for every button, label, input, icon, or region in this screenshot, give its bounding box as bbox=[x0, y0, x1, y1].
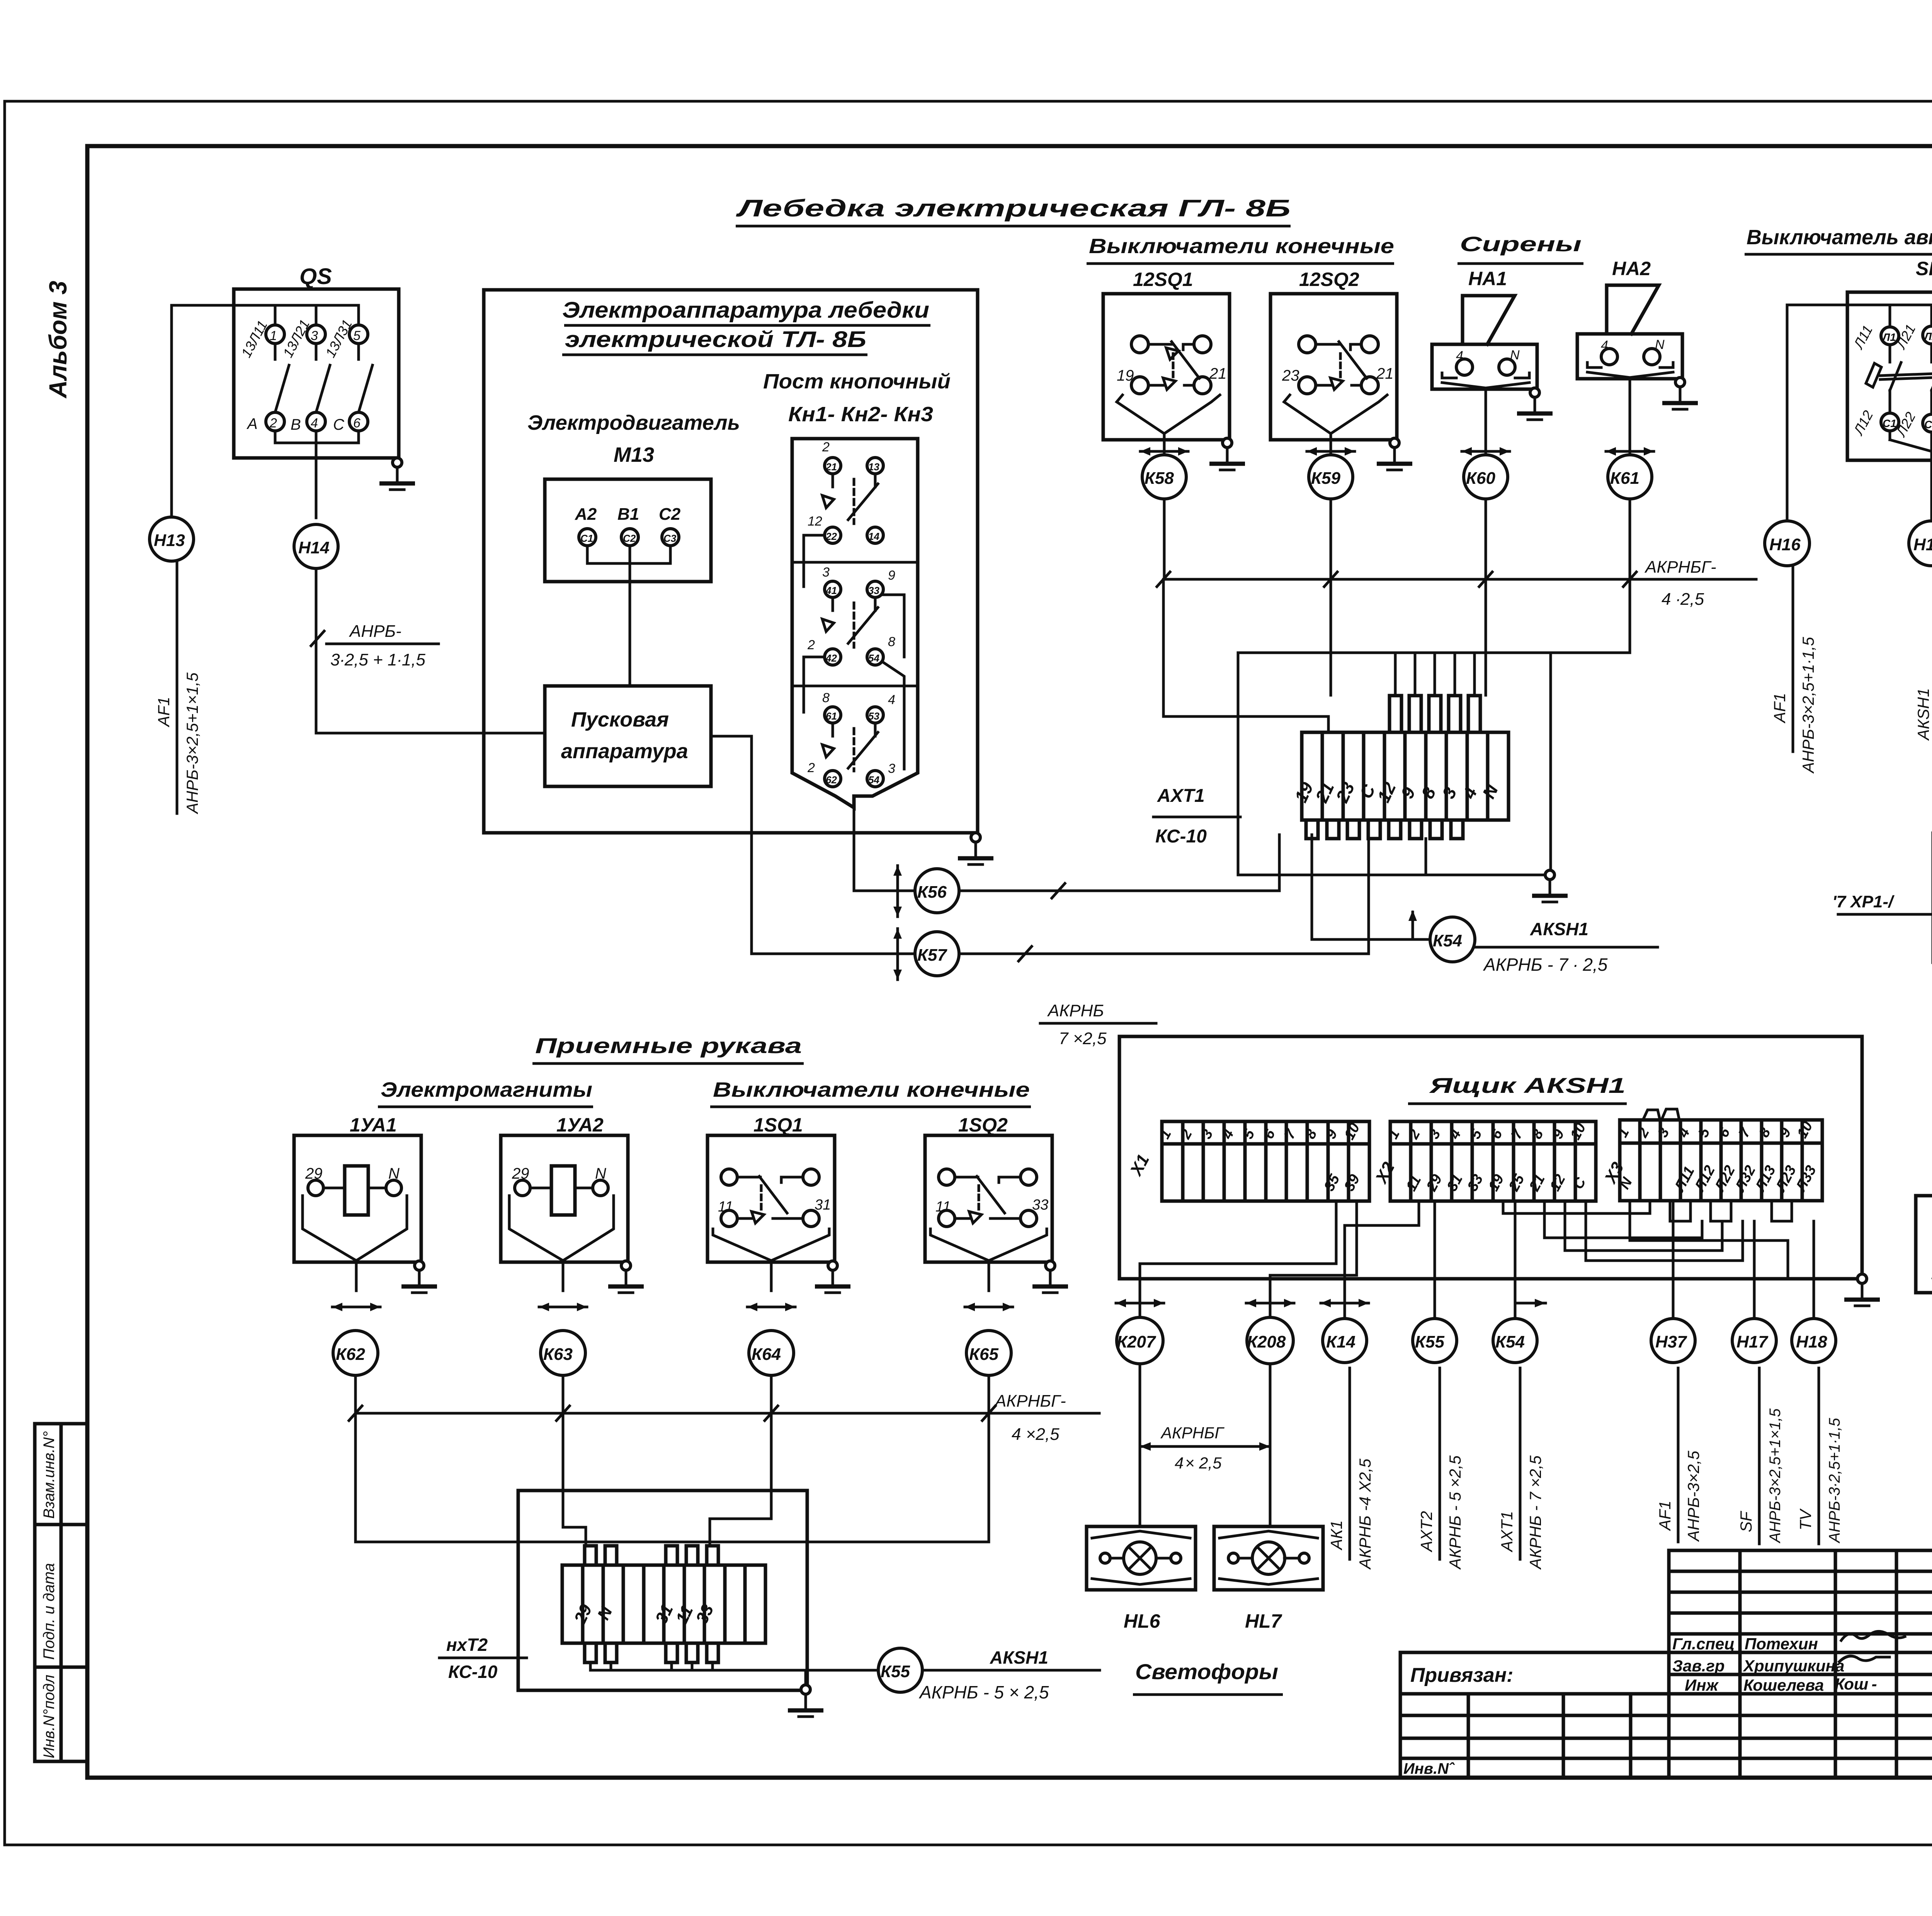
ground 1SQ1 bbox=[815, 1261, 850, 1293]
cable marker K64 bbox=[749, 1331, 794, 1375]
svg-text:3: 3 bbox=[311, 328, 318, 343]
wire H17 to X3:7 bbox=[1753, 1221, 1756, 1318]
svg-text:ТV: ТV bbox=[1796, 1508, 1815, 1530]
svg-text:С3: С3 bbox=[663, 533, 677, 544]
svg-text:К55: К55 bbox=[881, 1662, 910, 1681]
wire bottom collector QS bbox=[274, 431, 277, 443]
wire K59 down bbox=[1330, 499, 1332, 579]
left margin stamp boxes bbox=[35, 1424, 87, 1761]
cable marker H17 bbox=[1909, 521, 1932, 566]
ground QS bbox=[379, 458, 415, 490]
svg-text:АКSН1: АКSН1 bbox=[1914, 688, 1932, 741]
svg-text:SF: SF bbox=[1737, 1511, 1755, 1532]
svg-text:НL6: НL6 bbox=[1124, 1610, 1161, 1632]
breaker SF box bbox=[1847, 292, 1932, 460]
svg-text:К54: К54 bbox=[1433, 931, 1462, 950]
svg-text:АКРНБГ: АКРНБГ bbox=[1160, 1424, 1225, 1442]
arrow 1УА2 bbox=[539, 1303, 587, 1311]
svg-text:АКРНБ: АКРНБ bbox=[1047, 1001, 1104, 1020]
svg-text:К55: К55 bbox=[1415, 1332, 1445, 1351]
funnel 12SQ2 bbox=[1284, 395, 1331, 434]
wire K65 riser bbox=[988, 1413, 990, 1542]
svg-text:Выключатели конечные: Выключатели конечные bbox=[713, 1078, 1030, 1101]
arrow K208 bbox=[1246, 1299, 1294, 1307]
svg-text:Н18: Н18 bbox=[1796, 1332, 1827, 1351]
svg-text:33: 33 bbox=[868, 585, 879, 596]
wire K56 run bbox=[959, 835, 1279, 891]
wire K58 down bbox=[1163, 499, 1166, 579]
terminal C3 bbox=[662, 529, 679, 546]
svg-text:21: 21 bbox=[825, 461, 837, 473]
svg-text:Привязан:: Привязан: bbox=[1410, 1664, 1513, 1686]
arrow 1SQ1 bbox=[747, 1303, 795, 1311]
traffic light HL7 bbox=[1214, 1526, 1323, 1590]
wire H18 to X3:10 bbox=[1813, 1221, 1815, 1318]
svg-text:19: 19 bbox=[1117, 367, 1134, 384]
wire K57 run bbox=[959, 835, 1369, 954]
cable marker K57 bbox=[915, 932, 959, 976]
svg-text:11: 11 bbox=[718, 1199, 733, 1215]
node 3 bbox=[307, 325, 325, 344]
svg-text:АНРБ-3×2,5+1×1,5: АНРБ-3×2,5+1×1,5 bbox=[183, 672, 201, 815]
svg-text:3: 3 bbox=[888, 761, 895, 776]
svg-text:К54: К54 bbox=[1495, 1332, 1525, 1351]
wire K55 to X2:3 bbox=[1434, 1201, 1436, 1318]
cable marker K55 bbox=[1413, 1319, 1457, 1363]
svg-text:Светофоры: Светофоры bbox=[1135, 1659, 1278, 1684]
node 1 bbox=[266, 325, 284, 344]
wire K208 to X1:10 bbox=[1270, 1201, 1357, 1318]
svg-text:АНРБ-: АНРБ- bbox=[349, 622, 401, 641]
svg-text:Альбом 3: Альбом 3 bbox=[44, 281, 72, 399]
box AKSH1 bbox=[1119, 1036, 1862, 1279]
breaker poles bbox=[1889, 345, 1891, 362]
cable label К14 АК1 bbox=[1349, 1368, 1351, 1559]
svg-text:А2: А2 bbox=[575, 505, 597, 524]
svg-text:АНРБ-3×2,5+1×1,5: АНРБ-3×2,5+1×1,5 bbox=[1767, 1408, 1784, 1543]
svg-text:4: 4 bbox=[311, 416, 318, 431]
svg-text:21: 21 bbox=[1376, 365, 1394, 382]
wire K54 run bbox=[1311, 835, 1313, 939]
svg-text:62: 62 bbox=[826, 774, 837, 786]
wire AXT2 collector bbox=[589, 1662, 592, 1670]
svg-text:N: N bbox=[1510, 348, 1520, 362]
cable marker H13 bbox=[150, 517, 194, 561]
wire K59 riser to strip bbox=[1330, 579, 1332, 695]
terminal strip АХТ1 bbox=[1302, 732, 1509, 820]
node 5 bbox=[349, 325, 368, 344]
svg-text:Н17: Н17 bbox=[1736, 1332, 1769, 1351]
siren HA2 bbox=[1607, 285, 1659, 334]
svg-text:14: 14 bbox=[868, 531, 879, 542]
svg-text:1УА1: 1УА1 bbox=[350, 1114, 397, 1136]
wire H14 down bbox=[315, 568, 318, 733]
wire K207 to X1:9 bbox=[1140, 1201, 1336, 1318]
cable marker H16 bbox=[1765, 521, 1810, 566]
svg-text:31: 31 bbox=[815, 1197, 831, 1213]
terminal C1 bbox=[579, 529, 596, 546]
svg-text:4 × 2,5: 4 × 2,5 bbox=[1175, 1454, 1222, 1472]
svg-text:Лебедка электрическая ГЛ-: Лебедка электрическая ГЛ- 8Б bbox=[736, 195, 1291, 222]
svg-text:С2: С2 bbox=[659, 505, 681, 524]
svg-text:К14: К14 bbox=[1326, 1332, 1355, 1351]
svg-text:Зав.гр: Зав.гр bbox=[1672, 1657, 1725, 1675]
box АХТ2 bbox=[518, 1491, 807, 1690]
box ТЛ-8Б bbox=[484, 290, 978, 833]
svg-text:11: 11 bbox=[935, 1199, 951, 1215]
svg-text:К63: К63 bbox=[543, 1345, 573, 1364]
svg-text:Инж: Инж bbox=[1685, 1676, 1719, 1694]
wire K54 to X2:7 bbox=[1514, 1201, 1517, 1318]
title block left привязан part bbox=[1400, 1652, 1669, 1778]
svg-text:Приемные рукава: Приемные рукава bbox=[535, 1033, 802, 1058]
svg-text:Н17: Н17 bbox=[1913, 535, 1932, 554]
svg-text:29: 29 bbox=[305, 1165, 323, 1182]
strap X3 5-6 bbox=[1711, 1201, 1731, 1221]
svg-text:аппаратура: аппаратура bbox=[561, 740, 688, 763]
strip AXT1 top tabs bbox=[1389, 696, 1480, 732]
cable marker K65 bbox=[966, 1331, 1011, 1375]
svg-text:4: 4 bbox=[1456, 349, 1463, 363]
arrow 12SQ2 bbox=[1307, 447, 1355, 456]
terminal C1 bbox=[1881, 413, 1899, 431]
svg-text:N: N bbox=[595, 1165, 606, 1182]
svg-text:Выключатели конечные: Выключатели конечные bbox=[1089, 235, 1394, 258]
wire H37 to X3:3 bbox=[1672, 1201, 1675, 1318]
strip X2 bbox=[1390, 1121, 1596, 1201]
svg-text:АНРБ-3×2,5: АНРБ-3×2,5 bbox=[1684, 1450, 1702, 1542]
ground 1УА2 bbox=[608, 1261, 644, 1293]
svg-text:Н13: Н13 bbox=[154, 531, 185, 550]
svg-text:К64: К64 bbox=[752, 1345, 781, 1364]
strip X3 numbers bbox=[1614, 1119, 1820, 1195]
svg-text:22: 22 bbox=[825, 531, 837, 542]
wire SF feeder to H16 bbox=[1787, 305, 1847, 521]
limit switch 12SQ1 box bbox=[1103, 294, 1230, 440]
svg-text:В1: В1 bbox=[617, 505, 639, 524]
switch QS box bbox=[234, 289, 399, 458]
arrow K207 bbox=[1116, 1299, 1164, 1307]
svg-text:29: 29 bbox=[512, 1165, 529, 1182]
wire SF top bus bbox=[1847, 304, 1932, 306]
cable marker K54 bbox=[1430, 917, 1475, 962]
cable marker H37 bbox=[1651, 1319, 1695, 1363]
svg-text:Электродвигатель: Электродвигатель bbox=[527, 411, 740, 434]
button Кн3 terminals bbox=[825, 707, 841, 723]
wire drops to AXT1 tabs bbox=[1394, 653, 1397, 696]
svg-text:В: В bbox=[291, 416, 301, 433]
svg-text:Н37: Н37 bbox=[1655, 1332, 1687, 1351]
arrow 1SQ2 bbox=[965, 1303, 1013, 1311]
svg-text:АНРБ-3∙2,5+1∙1,5: АНРБ-3∙2,5+1∙1,5 bbox=[1826, 1417, 1843, 1543]
strip AXT1 labels bbox=[1291, 779, 1502, 806]
cable marker K60 bbox=[1464, 455, 1508, 499]
electromagnet 1УА2 box bbox=[501, 1135, 628, 1262]
wire M13 to starter bbox=[629, 563, 631, 686]
cable marker H14 bbox=[294, 524, 338, 568]
electromagnet 1УА1 box bbox=[294, 1135, 421, 1262]
svg-text:Пусковая: Пусковая bbox=[571, 708, 669, 731]
wire pole stubs bbox=[274, 305, 277, 325]
jumper caps X3 bbox=[1643, 1110, 1660, 1120]
cable label AF1 / АНРБ-3x2,5+1x1,5 bbox=[176, 562, 179, 813]
svg-text:К207: К207 bbox=[1117, 1332, 1156, 1351]
arrow K14 bbox=[1321, 1299, 1369, 1307]
ground 12SQ1 bbox=[1209, 438, 1245, 470]
svg-text:Пост кнопочный: Пост кнопочный bbox=[763, 370, 951, 393]
wire bus АКРНБГ 4x2,5 bottom bbox=[354, 1375, 357, 1413]
svg-text:QS: QS bbox=[299, 264, 332, 289]
svg-text:АКРНБ - 5 ×2,5: АКРНБ - 5 ×2,5 bbox=[1446, 1455, 1464, 1570]
title block signature table bbox=[1669, 1550, 1932, 1778]
svg-text:Выключатель автоматический: Выключатель автоматический bbox=[1747, 226, 1932, 249]
arrow HA2 bbox=[1606, 447, 1654, 456]
ground 1УА1 bbox=[401, 1261, 437, 1293]
wire stub to loop bbox=[1425, 839, 1427, 875]
cable label Н18 ТV bbox=[1818, 1368, 1820, 1544]
wire post to K56 bbox=[854, 808, 915, 891]
ground loop bbox=[1532, 870, 1568, 902]
arrow K54 right bbox=[1515, 1299, 1546, 1307]
svg-text:61: 61 bbox=[826, 710, 837, 722]
svg-text:3∙2,5 + 1∙1,5: 3∙2,5 + 1∙1,5 bbox=[330, 650, 425, 669]
strap X3 8-9 bbox=[1772, 1201, 1792, 1221]
traffic light HL6 bbox=[1087, 1526, 1196, 1590]
svg-text:Кошелева: Кошелева bbox=[1743, 1676, 1824, 1694]
svg-text:53: 53 bbox=[868, 710, 879, 722]
cable dim АКРНБГ 4x2,5 bbox=[1140, 1442, 1270, 1451]
wire K63 step bbox=[563, 1413, 586, 1546]
cable marker K55 left bbox=[878, 1648, 922, 1692]
wire K14 to X2:2 bbox=[1345, 1201, 1419, 1318]
svg-text:К60: К60 bbox=[1466, 469, 1496, 488]
wire K62 riser bbox=[354, 1413, 357, 1542]
svg-text:4 ×2,5: 4 ×2,5 bbox=[1012, 1425, 1060, 1444]
svg-text:Хрипушкина: Хрипушкина bbox=[1743, 1657, 1844, 1675]
svg-text:Инв.N°подл: Инв.N°подл bbox=[41, 1675, 58, 1758]
ground 12SQ2 bbox=[1377, 438, 1412, 470]
strip X3 bbox=[1620, 1120, 1822, 1201]
node 4 bbox=[307, 412, 325, 431]
push button post box bbox=[792, 439, 918, 808]
arrow 1УА1 bbox=[332, 1303, 380, 1311]
svg-text:С: С bbox=[333, 416, 345, 433]
svg-text:54: 54 bbox=[868, 652, 879, 664]
svg-text:НА2: НА2 bbox=[1612, 258, 1651, 279]
button Кн2 terminals bbox=[825, 581, 841, 597]
svg-text:42: 42 bbox=[825, 652, 837, 664]
cable marker K14 bbox=[1323, 1319, 1367, 1363]
cable marker K62 bbox=[333, 1331, 378, 1375]
ground AKSH1 bbox=[1844, 1274, 1880, 1306]
cable marker K59 bbox=[1309, 455, 1353, 499]
arrow updown K57 bbox=[893, 929, 902, 980]
cable label Н37 АF1 bbox=[1677, 1368, 1680, 1542]
strip АХТ2 bbox=[562, 1565, 765, 1643]
strip X2 numbers bbox=[1385, 1120, 1589, 1194]
cable marker K208 bbox=[1247, 1317, 1293, 1364]
node 2 bbox=[266, 412, 284, 431]
cable marker K54 bbox=[1493, 1319, 1537, 1363]
svg-text:АКSН1: АКSН1 bbox=[990, 1647, 1048, 1668]
terminal C2 bbox=[621, 529, 638, 546]
wire loop around strip bbox=[1238, 653, 1630, 875]
svg-text:1SQ2: 1SQ2 bbox=[958, 1114, 1008, 1136]
svg-text:К59: К59 bbox=[1311, 469, 1341, 488]
siren HA1 bbox=[1463, 296, 1515, 344]
svg-text:Электроаппаратура лебедки: Электроаппаратура лебедки bbox=[562, 298, 929, 323]
svg-text:Потехин: Потехин bbox=[1745, 1635, 1818, 1653]
strip X1 numbers bbox=[1156, 1120, 1363, 1194]
svg-text:41: 41 bbox=[825, 585, 837, 596]
ground HA2 bbox=[1662, 378, 1698, 409]
svg-text:Кош -: Кош - bbox=[1835, 1675, 1877, 1693]
svg-text:КС-10: КС-10 bbox=[448, 1662, 498, 1682]
funnel SF bbox=[1889, 431, 1891, 440]
motor M13 box bbox=[545, 479, 711, 582]
wire box right edge N bbox=[1861, 1036, 1864, 1274]
arrow up K54 bbox=[1408, 910, 1417, 939]
svg-text:АХТ1: АХТ1 bbox=[1498, 1511, 1516, 1553]
switch blades QS bbox=[274, 344, 277, 359]
strip AXT2 top tabs bbox=[585, 1546, 718, 1565]
svg-text:13: 13 bbox=[868, 461, 879, 473]
limit switch 1SQ1 box bbox=[707, 1135, 835, 1262]
strip AXT2 labels bbox=[570, 1601, 718, 1627]
ground АХТ2 bbox=[788, 1685, 823, 1717]
wire N to ground edge bbox=[1630, 1201, 1788, 1279]
svg-text:7 ×2,5: 7 ×2,5 bbox=[1059, 1029, 1107, 1048]
wire staircase X2-X3 bbox=[1503, 1201, 1650, 1213]
svg-text:8: 8 bbox=[888, 635, 895, 649]
wire starter to K57 riser bbox=[711, 736, 915, 954]
svg-text:К57: К57 bbox=[917, 946, 948, 965]
svg-text:2: 2 bbox=[822, 440, 830, 454]
svg-text:Гл.спец: Гл.спец bbox=[1672, 1635, 1735, 1653]
svg-text:КС-10: КС-10 bbox=[1155, 826, 1207, 847]
svg-text:АF1: АF1 bbox=[155, 697, 173, 728]
svg-text:АКРНБ - 7 ∙ 2,5: АКРНБ - 7 ∙ 2,5 bbox=[1483, 955, 1608, 975]
svg-text:К65: К65 bbox=[969, 1345, 999, 1364]
wire QS left feeder down to H13 bbox=[170, 305, 173, 517]
svg-text:SF: SF bbox=[1916, 258, 1932, 279]
svg-text:С2: С2 bbox=[623, 533, 636, 544]
svg-text:АКРНБ - 7 ×2,5: АКРНБ - 7 ×2,5 bbox=[1526, 1455, 1544, 1570]
wire K207 down to HL6 bbox=[1139, 1364, 1141, 1526]
svg-text:К62: К62 bbox=[336, 1345, 366, 1364]
signature squiggles bbox=[1841, 1631, 1905, 1640]
svg-text:К61: К61 bbox=[1610, 469, 1639, 488]
svg-text:1УА2: 1УА2 bbox=[556, 1114, 604, 1136]
strip AXT1 bottom tabs bbox=[1306, 820, 1463, 839]
svg-text:ʹ7 ХР1-/: ʹ7 ХР1-/ bbox=[1832, 892, 1895, 911]
svg-text:Ящик АКSН1: Ящик АКSН1 bbox=[1429, 1073, 1626, 1098]
arrow HA1 bbox=[1462, 447, 1510, 456]
cable marker H18 bbox=[1792, 1319, 1836, 1363]
wire K61 down bbox=[1629, 499, 1631, 579]
svg-text:1: 1 bbox=[270, 328, 277, 343]
svg-text:Кн1- Кн2- Кн3: Кн1- Кн2- Кн3 bbox=[788, 403, 933, 426]
svg-text:23: 23 bbox=[1282, 367, 1299, 384]
svg-text:А: А bbox=[247, 415, 258, 432]
terminal C2 bbox=[1923, 414, 1932, 432]
ground 1SQ2 bbox=[1032, 1261, 1068, 1293]
cable marker K61 bbox=[1608, 455, 1652, 499]
svg-text:АF1: АF1 bbox=[1656, 1501, 1674, 1531]
svg-text:электрической ТЛ- 8Б: электрической ТЛ- 8Б bbox=[565, 327, 866, 352]
wire K55 run bbox=[807, 1669, 878, 1672]
wire post internal links bbox=[804, 535, 825, 587]
cable label К55 АХТ2 bbox=[1439, 1368, 1441, 1559]
svg-text:54: 54 bbox=[868, 774, 879, 786]
svg-text:Электромагниты: Электромагниты bbox=[381, 1078, 592, 1101]
svg-text:НL7: НL7 bbox=[1245, 1610, 1282, 1632]
svg-text:1SQ1: 1SQ1 bbox=[753, 1114, 803, 1136]
svg-text:4 ∙2,5: 4 ∙2,5 bbox=[1662, 590, 1704, 609]
wire K61 riser to loop bbox=[1629, 579, 1631, 653]
svg-text:Н16: Н16 bbox=[1769, 535, 1801, 554]
starter box пусковая аппаратура bbox=[545, 686, 711, 786]
strip X1 bbox=[1162, 1121, 1369, 1201]
arrow 12SQ1 bbox=[1140, 447, 1188, 456]
wire horizontal into AXT2 bbox=[355, 1541, 989, 1543]
strap X3 3-4 bbox=[1670, 1201, 1690, 1221]
svg-text:АКРНБ - 5 × 2,5: АКРНБ - 5 × 2,5 bbox=[918, 1682, 1049, 1702]
cable label AF1 / АНРБ-3x2,5+1x1,5 bbox=[1792, 567, 1794, 752]
cable marker K63 bbox=[541, 1331, 585, 1375]
svg-text:К58: К58 bbox=[1145, 469, 1174, 488]
svg-text:6: 6 bbox=[353, 416, 361, 431]
wire top bus to QS bbox=[172, 304, 359, 307]
svg-text:С1: С1 bbox=[1883, 417, 1896, 429]
svg-text:Н14: Н14 bbox=[298, 538, 330, 557]
cable marker K56 bbox=[915, 869, 959, 913]
cable label К54 АХТ1 bbox=[1519, 1368, 1522, 1559]
ground big box bbox=[958, 833, 993, 864]
arrow updown K56 bbox=[893, 866, 902, 917]
svg-text:2: 2 bbox=[807, 638, 815, 652]
svg-text:Сирены: Сирены bbox=[1460, 233, 1582, 256]
svg-text:2: 2 bbox=[269, 416, 277, 431]
svg-text:АХТ2: АХТ2 bbox=[1417, 1511, 1435, 1553]
cable label АНРБ-3x2,5+1x1,5 bbox=[311, 631, 324, 646]
svg-text:Взам.инв.N°: Взам.инв.N° bbox=[41, 1431, 58, 1519]
svg-text:С2: С2 bbox=[1924, 419, 1932, 431]
svg-text:21: 21 bbox=[1209, 365, 1227, 382]
svg-text:С1: С1 bbox=[580, 533, 593, 544]
svg-text:3: 3 bbox=[822, 565, 830, 580]
terminal Л2 bbox=[1923, 326, 1932, 344]
funnel 12SQ1 bbox=[1117, 395, 1164, 434]
cable label Н17 SF bbox=[1758, 1368, 1761, 1544]
svg-text:Инв.Nˆ: Инв.Nˆ bbox=[1403, 1760, 1455, 1777]
wire H14 to starter box bbox=[316, 732, 545, 735]
svg-text:8: 8 bbox=[822, 691, 830, 705]
svg-text:5: 5 bbox=[353, 328, 361, 343]
svg-text:12SQ2: 12SQ2 bbox=[1299, 269, 1359, 290]
cable marker H17 bbox=[1732, 1319, 1776, 1363]
svg-text:Подп. и дата: Подп. и дата bbox=[41, 1563, 58, 1660]
svg-text:АК1: АК1 bbox=[1327, 1520, 1345, 1551]
svg-text:М13: М13 bbox=[614, 443, 654, 466]
svg-text:АF1: АF1 bbox=[1770, 693, 1789, 724]
limit switch 12SQ2 box bbox=[1270, 294, 1397, 440]
svg-text:НА1: НА1 bbox=[1468, 268, 1507, 289]
svg-text:АКРНБ -4 Х2,5: АКРНБ -4 Х2,5 bbox=[1356, 1458, 1374, 1570]
svg-text:2: 2 bbox=[807, 761, 815, 775]
svg-text:АКSН1: АКSН1 bbox=[1530, 919, 1588, 939]
ground HA1 bbox=[1517, 388, 1553, 420]
